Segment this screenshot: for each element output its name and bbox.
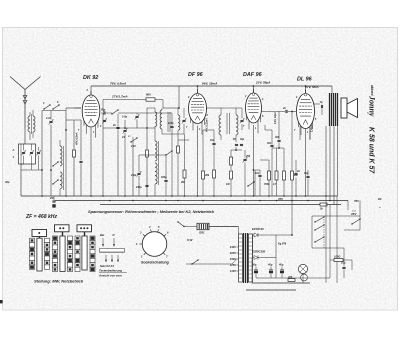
- capacitor 10u right: [341, 260, 346, 278]
- label DF96: [188, 72, 204, 78]
- wire y160 segment DAF: [244, 159, 246, 161]
- label 78V 0,5mA: [110, 81, 127, 85]
- DF96 top pin wire: [197, 85, 199, 93]
- label 1,4mA vertical: [311, 125, 314, 132]
- wire y160b segment: [260, 160, 269, 171]
- svg-text:2n: 2n: [296, 170, 300, 173]
- capacitor 10u cathode: [304, 170, 310, 196]
- svg-text:50p: 50p: [101, 109, 106, 112]
- resistor 700k: [264, 171, 271, 196]
- switch arrow mid: [247, 181, 254, 186]
- svg-text:DAF 96: DAF 96: [243, 72, 263, 78]
- wire y148 segment: [272, 147, 284, 160]
- DAF96 top pin wire: [253, 85, 255, 93]
- IF2 coil secondary: [236, 108, 238, 142]
- svg-text:ZF = 468 kHz: ZF = 468 kHz: [25, 214, 57, 220]
- capacitor 10n det2: [255, 170, 262, 196]
- screen bus wire: [103, 100, 163, 111]
- svg-text:K 58 und K 57: K 58 und K 57: [368, 127, 375, 174]
- edge blob: [0, 300, 3, 303]
- model text Jonny: [368, 95, 377, 117]
- bus junction dots: [41, 195, 331, 201]
- svg-text:100p: 100p: [168, 122, 174, 125]
- diode E150C30: [252, 227, 276, 237]
- svg-text:2n: 2n: [282, 107, 286, 110]
- power wiring horizontals: [246, 235, 330, 290]
- resistor 2k on bus: [319, 203, 327, 211]
- capacitor 25n ground: [49, 196, 56, 208]
- capacitor Tp: [320, 101, 324, 115]
- resistor 48k: [202, 160, 210, 196]
- label 40V 0,12mA vertical: [206, 118, 209, 133]
- tube DF96: [189, 90, 207, 135]
- svg-text:10µ: 10µ: [341, 261, 346, 265]
- svg-text:22V, 55µA: 22V, 55µA: [255, 80, 271, 84]
- wire left down: [21, 144, 24, 196]
- DAF96 cathode wire: [253, 125, 255, 196]
- resistor left of DK92: [73, 150, 76, 157]
- label 22V 55uA: [255, 80, 271, 84]
- wire IF1 to DF96 grid: [178, 139, 189, 141]
- oscillator coil L6: [155, 163, 157, 196]
- wire transformer top in: [209, 227, 239, 235]
- wire osc x133 down: [132, 137, 134, 196]
- label Tastenbedienung: [99, 269, 127, 273]
- svg-text:DL 96: DL 96: [297, 77, 313, 83]
- svg-text:Rö: Rö: [378, 197, 382, 201]
- anode supply bus wire: [91, 86, 332, 95]
- svg-text:0,6V, 32µA: 0,6V, 32µA: [274, 112, 277, 124]
- label 30p: [5, 180, 10, 184]
- wire DAF96 anode to DL96: [262, 111, 297, 113]
- svg-text:96V, 15mA: 96V, 15mA: [202, 81, 218, 85]
- oscillator anode coil: [155, 108, 157, 128]
- svg-text:240V: 240V: [229, 245, 236, 249]
- DL96 top pin wire: [305, 85, 307, 93]
- tube DAF96: [246, 89, 262, 133]
- svg-text:2-: 2-: [12, 148, 15, 152]
- svg-text:E250C350: E250C350: [252, 250, 266, 254]
- wire osc x118 down: [117, 140, 119, 196]
- brand text akkord: [370, 85, 374, 96]
- resistor 200: [287, 276, 295, 281]
- IF2 coil primary: [219, 108, 221, 140]
- rectifier GR1: [197, 223, 209, 234]
- label 27V/1,7mA: [111, 95, 128, 99]
- svg-text:4,7: 4,7: [272, 183, 277, 186]
- wire IF1 bottom: [162, 129, 184, 140]
- svg-text:Jonny: Jonny: [368, 95, 377, 117]
- wire y128 osc top: [103, 127, 155, 129]
- speaker: [341, 98, 358, 118]
- svg-text:240p: 240p: [135, 186, 142, 189]
- svg-text:100Ω: 100Ω: [334, 255, 340, 259]
- oscillator coil L5: [155, 128, 157, 161]
- pushbutton switch bank 2: [53, 225, 73, 272]
- mains transformer: [239, 233, 253, 283]
- svg-text:2k: 2k: [319, 208, 323, 211]
- note Spannungsmesser: [88, 209, 214, 214]
- svg-text:Kg 878: Kg 878: [278, 243, 287, 246]
- DL96 cathode wires: [300, 126, 310, 196]
- wire 800 to coil: [162, 100, 164, 109]
- label ZF = 468 kHz: [25, 214, 57, 220]
- svg-text:2n: 2n: [112, 124, 116, 127]
- svg-text:N: N: [113, 233, 115, 237]
- svg-text:1,4mA: 1,4mA: [311, 125, 314, 132]
- svg-text:50µ: 50µ: [252, 263, 257, 267]
- wire y108 osc: [147, 108, 155, 128]
- trimmer capacitor: [36, 147, 41, 160]
- wave switch S1: [43, 102, 51, 110]
- svg-text:Stellung: MW, Netzbetrieb: Stellung: MW, Netzbetrieb: [34, 279, 84, 284]
- wire gang to ground: [21, 160, 42, 170]
- svg-text:200: 200: [287, 276, 293, 279]
- label Rp right: [378, 197, 382, 209]
- switch cluster K1: [314, 216, 324, 249]
- svg-text:2-8p: 2-8p: [121, 116, 128, 119]
- svg-text:+: +: [379, 205, 381, 209]
- IF2 core: [227, 113, 230, 134]
- variable capacitor C1: [21, 144, 26, 164]
- capacitor spark: [294, 160, 300, 196]
- svg-text:78V, 0,5mA: 78V, 0,5mA: [110, 81, 127, 85]
- antenna coil L1: [25, 112, 30, 144]
- switch cluster K2: [314, 218, 360, 242]
- capacitor 30n: [267, 130, 274, 196]
- transformer secondary wires down: [326, 126, 338, 205]
- model text K58 und K57: [368, 127, 375, 174]
- label 96V 15mA: [202, 81, 218, 85]
- svg-text:40µ: 40µ: [267, 263, 273, 267]
- trimmer 2-9p: [130, 155, 141, 196]
- socket circle: [135, 225, 169, 258]
- wire x51 vertical: [50, 125, 52, 197]
- wire y155 osc: [139, 155, 166, 160]
- svg-text:25k: 25k: [245, 155, 251, 158]
- IF2 trim caps: [236, 108, 244, 130]
- label 87V 5mA: [305, 85, 319, 89]
- label Netz K2 K1: [100, 264, 115, 268]
- resistor 2M AGC: [180, 134, 186, 196]
- resistor x214b: [213, 170, 216, 178]
- capacitor 240p: [135, 185, 149, 189]
- capacitor 100p: [168, 113, 174, 196]
- wire diode row extension: [276, 196, 293, 236]
- svg-text:Tp: Tp: [320, 101, 324, 104]
- voltage taps: [229, 245, 239, 273]
- svg-text:Sockelschaltung: Sockelschaltung: [141, 261, 170, 265]
- pushbutton switch bank 1: [30, 230, 50, 272]
- wire IF2 bottom to det: [231, 147, 242, 150]
- switch contact osc: [111, 109, 118, 114]
- bus end arrow 78V: [348, 201, 357, 217]
- svg-text:2-10: 2-10: [45, 117, 51, 120]
- junction dots left: [41, 129, 67, 171]
- DL96 pin numbers: [294, 97, 317, 134]
- svg-text:40V, 0,12mA: 40V, 0,12mA: [206, 118, 209, 133]
- svg-text:30p: 30p: [240, 138, 245, 141]
- DK92 pin wires: [74, 108, 103, 196]
- tuning gang box: [19, 144, 36, 164]
- DAF96 pin numbers: [243, 96, 264, 130]
- svg-text:30p: 30p: [5, 180, 10, 184]
- capacitor left of DK92: [79, 120, 82, 196]
- key strip diagram: [100, 249, 125, 253]
- label DK92: [83, 75, 98, 81]
- svg-text:125V: 125V: [230, 263, 236, 267]
- label Ansicht von vorn: [98, 274, 122, 278]
- electrolytic 50u: [252, 263, 258, 279]
- wire grid line: [42, 108, 81, 111]
- wave switch S2: [52, 101, 59, 110]
- svg-text:27V/1,7mA: 27V/1,7mA: [111, 95, 128, 99]
- svg-text:Netz K2 K1: Netz K2 K1: [100, 264, 115, 268]
- coil L4: [60, 172, 62, 196]
- capacitor 2n: [112, 114, 120, 140]
- capacitor 10n DF: [210, 130, 216, 196]
- ground bus 3: [100, 204, 341, 206]
- potentiometer 25k: [243, 150, 251, 196]
- label Sockelschaltung: [141, 261, 170, 265]
- wire y150 det segment: [231, 149, 237, 151]
- resistor osc 25k: [146, 150, 149, 157]
- svg-text:Tastenbedienung: Tastenbedienung: [99, 269, 122, 273]
- trimmer pad 50p b: [102, 118, 107, 123]
- svg-text:87V, 5mA: 87V, 5mA: [305, 85, 319, 89]
- label 22V vertical small: [274, 112, 277, 124]
- resistor 800: [146, 93, 155, 102]
- dial lamp: [298, 264, 307, 273]
- capacitor 180p: [161, 160, 168, 196]
- svg-text:40µ: 40µ: [278, 263, 284, 267]
- tube DK92: [82, 91, 100, 138]
- arrow N: [113, 233, 116, 247]
- label 78V on bus: [278, 197, 284, 201]
- output transformer: [330, 93, 338, 126]
- svg-text:Ansicht von vorn: Ansicht von vorn: [98, 274, 122, 278]
- pushbutton switch bank 3: [75, 225, 95, 272]
- coil core: [31, 114, 33, 134]
- capacitor 50p: [101, 109, 112, 115]
- label DL96: [297, 77, 313, 83]
- vert bus x179 from anode bus: [178, 86, 180, 109]
- DK92 pin numbers: [78, 110, 105, 134]
- coil core 2: [63, 146, 65, 190]
- trimmer 24p: [121, 120, 127, 196]
- label 2-: [12, 148, 15, 159]
- caps 50p 30p: [233, 138, 245, 146]
- switch osc 2: [128, 136, 138, 143]
- IF1 core: [168, 112, 170, 132]
- IF1 coil primary: [160, 108, 179, 129]
- svg-text:GR1: GR1: [199, 231, 205, 235]
- svg-text:220V: 220V: [229, 251, 236, 255]
- wire right switch: [344, 201, 360, 231]
- electrolytic 40u b: [278, 263, 284, 279]
- resistor 1M IF: [177, 140, 180, 196]
- label 6W: [187, 238, 194, 242]
- selector wires: [186, 259, 237, 265]
- resistor 100: [330, 255, 352, 271]
- switch cluster frame wires: [312, 216, 360, 260]
- switch on feed: [177, 221, 184, 227]
- wire bus to transformer: [331, 86, 333, 93]
- label DAF96: [243, 72, 263, 78]
- svg-text:DK 92: DK 92: [83, 75, 98, 81]
- switch arrow mid2: [165, 150, 172, 155]
- switch contact mid-left: [52, 161, 58, 184]
- resistor x284: [283, 160, 286, 196]
- svg-text:akkord: akkord: [370, 85, 374, 96]
- label 2-10p mid: [130, 145, 136, 148]
- IF1 coil secondary: [178, 108, 180, 134]
- power wiring verticals right: [326, 196, 337, 283]
- svg-text:10n: 10n: [255, 172, 260, 175]
- variable capacitor C2: [29, 144, 34, 164]
- svg-text:48k: 48k: [204, 174, 210, 177]
- resistor 2M grid DL: [291, 111, 299, 196]
- wire osc v1: [102, 113, 104, 196]
- svg-text:Spannungsmesser: Röhrenvoltme: Spannungsmesser: Röhrenvoltmeter ; Meßwe…: [88, 209, 214, 214]
- svg-text:800: 800: [146, 93, 151, 97]
- anode wire to output transformer: [313, 103, 320, 105]
- resistor 1M det: [230, 150, 233, 170]
- tube DL96: [297, 90, 315, 140]
- headphone jack circle: [301, 274, 308, 281]
- wire grid DF96 from osc: [118, 112, 172, 114]
- resistor x231 lower: [226, 171, 233, 196]
- svg-text:2-9p: 2-9p: [130, 173, 137, 177]
- capacitor 300p: [275, 112, 281, 149]
- ground bus 2: [55, 200, 348, 202]
- label 48V 0,5mA vertical: [76, 132, 79, 146]
- trimmer 2-8p: [121, 113, 139, 128]
- arrows down keys: [105, 255, 119, 262]
- svg-text:30n: 30n: [267, 142, 272, 145]
- DF96 pin numbers: [186, 97, 209, 131]
- svg-text:48V, 0,5mA: 48V, 0,5mA: [76, 132, 79, 146]
- svg-text:DF 96: DF 96: [188, 72, 204, 78]
- svg-text:Bat: Bat: [100, 233, 104, 237]
- pin 2 label DK92: [86, 89, 89, 92]
- label 76V: [354, 199, 360, 203]
- capacitor 2n coupling: [282, 107, 292, 113]
- label Kg 878: [278, 243, 287, 246]
- IF1 trim caps: [182, 108, 187, 134]
- lamp drop wire: [302, 274, 304, 283]
- wire osc x147: [146, 128, 148, 196]
- coil L3: [60, 140, 62, 166]
- DF96 cathode wire: [197, 126, 199, 197]
- note Stellung: [34, 279, 84, 284]
- antenna coil L2: [33, 110, 35, 138]
- wire y130 segment: [203, 130, 214, 160]
- osc coil core: [158, 141, 160, 185]
- svg-text:110V: 110V: [230, 269, 236, 273]
- trimmer 2-10: [45, 111, 53, 125]
- wire y120 horizontal: [66, 119, 81, 121]
- antenna: [10, 77, 41, 129]
- ground bus 1: [21, 195, 338, 197]
- wire x66-74 verticals: [66, 111, 74, 197]
- svg-text:E150C30: E150C30: [252, 227, 264, 231]
- wire x42 vertical: [41, 111, 43, 197]
- wire rectifier feed: [184, 226, 238, 228]
- arrow Bat: [100, 233, 104, 247]
- wire IF2 top: [207, 108, 237, 110]
- wire DAF screen: [265, 125, 272, 130]
- wire y170 segment: [253, 169, 260, 196]
- electrolytic 40u a: [267, 263, 273, 279]
- diode E250C350: [252, 250, 276, 260]
- resistor x276: [272, 148, 278, 196]
